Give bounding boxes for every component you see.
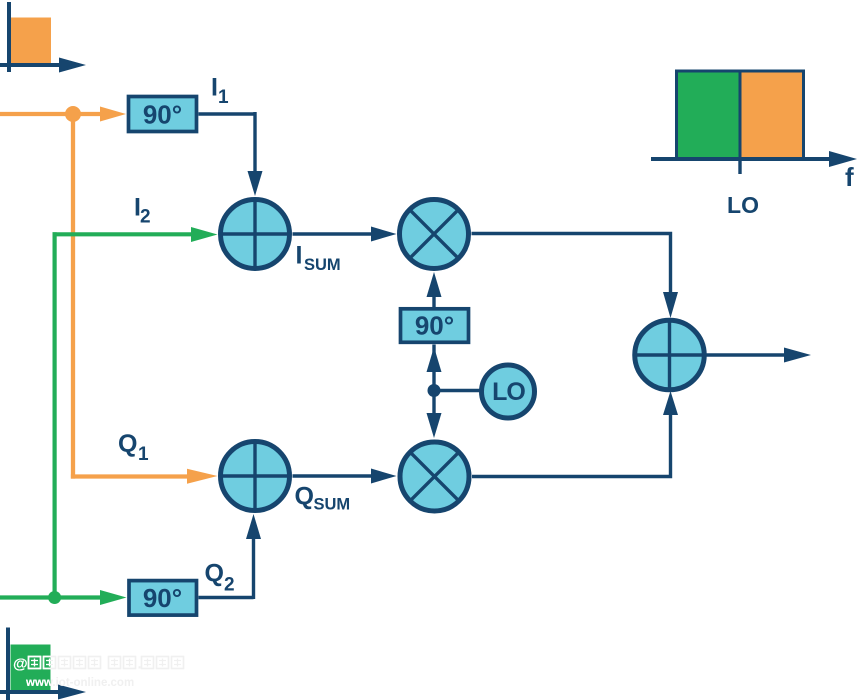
svg-text:LO: LO <box>727 192 759 218</box>
svg-text:2: 2 <box>140 207 151 228</box>
svg-text:LO: LO <box>492 378 525 406</box>
svg-text:I: I <box>296 242 303 270</box>
svg-text:90°: 90° <box>143 583 182 613</box>
svg-text:SUM: SUM <box>304 256 341 274</box>
svg-text:Q: Q <box>205 560 224 588</box>
svg-text:SUM: SUM <box>314 496 351 514</box>
svg-text:f: f <box>845 162 854 192</box>
svg-text:I: I <box>211 74 218 102</box>
svg-text:2: 2 <box>224 575 235 596</box>
svg-text:@: @ <box>13 656 28 673</box>
svg-text:90°: 90° <box>415 311 454 341</box>
svg-text:90°: 90° <box>143 100 182 130</box>
svg-text:1: 1 <box>218 87 229 108</box>
svg-text:Q: Q <box>118 430 137 458</box>
svg-text:Q: Q <box>295 483 314 511</box>
svg-text:1: 1 <box>138 444 149 465</box>
